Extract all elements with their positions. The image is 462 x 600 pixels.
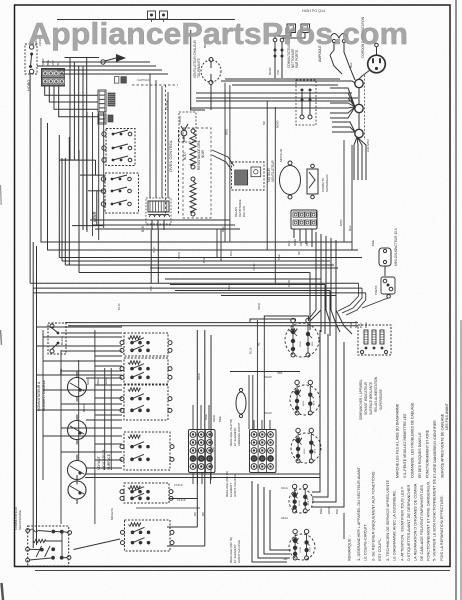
svg-text:BLC: BLC <box>349 61 353 68</box>
svg-text:B16: B16 <box>149 286 153 291</box>
svg-text:BGE: BGE <box>227 285 231 291</box>
svg-text:BGE: BGE <box>312 341 314 346</box>
svg-text:LE DIAGRAMME AVEC LA CUISINIER: LE DIAGRAMME AVEC LA CUISINIERE. <box>391 490 396 561</box>
svg-text:NOIR: NOIR <box>354 321 358 328</box>
svg-text:FOIS LA REPARATION EFFECTUEE.: FOIS LA REPARATION EFFECTUEE. <box>439 495 444 561</box>
svg-text:SUPERIEUR: SUPERIEUR <box>325 174 329 192</box>
svg-text:TOURNANTE: TOURNANTE <box>197 58 201 78</box>
svg-text:1- DEBRANCHER L APPAREIL DU SE: 1- DEBRANCHER L APPAREIL DU SECTEUR AVAN… <box>356 466 361 561</box>
svg-text:B16: B16 <box>141 226 145 232</box>
svg-text:NOIR: NOIR <box>303 400 305 406</box>
svg-text:PAR PORTE: PAR PORTE <box>295 50 299 68</box>
svg-text:BGE: BGE <box>218 416 222 422</box>
svg-text:MINI-DISJONCTEUR 15 A: MINI-DISJONCTEUR 15 A <box>394 227 398 266</box>
svg-text:NOIR: NOIR <box>327 507 331 514</box>
svg-text:NOIR: NOIR <box>276 120 280 128</box>
svg-text:B10W: B10W <box>264 375 272 379</box>
svg-text:BGE: BGE <box>314 400 316 405</box>
svg-text:MOLETA: MOLETA <box>110 508 114 520</box>
svg-text:LA REPARATION D ORGANES DE COM: LA REPARATION D ORGANES DE COMMA <box>413 483 418 561</box>
svg-text:BL16: BL16 <box>249 347 253 354</box>
svg-text:AppliancePartsPros.com: AppliancePartsPros.com <box>28 16 408 51</box>
svg-text:MOTEUR: MOTEUR <box>279 148 283 162</box>
svg-text:MTR: MTR <box>339 219 343 226</box>
svg-text:022A: 022A <box>281 516 288 520</box>
svg-text:SECONDAIRE: SECONDAIRE <box>18 510 22 530</box>
svg-text:BGE: BGE <box>202 257 206 263</box>
svg-text:VOYANT INDICATEUR: VOYANT INDICATEUR <box>364 381 368 415</box>
svg-text:BLC: BLC <box>221 225 225 232</box>
svg-text:NOIR: NOIR <box>212 415 216 422</box>
svg-text:BLC VID: BLC VID <box>242 206 246 217</box>
svg-text:NOIR: NOIR <box>304 448 306 454</box>
svg-text:F1316: F1316 <box>174 483 183 487</box>
svg-text:SURFACE: SURFACE <box>107 453 111 470</box>
svg-text:2- SE REFERER UNIQUEMENT AUX F: 2- SE REFERER UNIQUEMENT AUX FONCTIONS <box>370 471 375 561</box>
svg-text:B10W: B10W <box>264 411 272 415</box>
svg-text:D ETIQUETTES AVANT DE DEBRANCH: D ETIQUETTES AVANT DE DEBRANCHER <box>406 484 411 561</box>
svg-text:BGE: BGE <box>319 508 323 514</box>
svg-text:SUPERIEURE: SUPERIEURE <box>379 389 383 410</box>
svg-text:3- TECHNICIEN DE SERVICE APRES: 3- TECHNICIEN DE SERVICE APRES-VENTE <box>385 479 390 561</box>
svg-text:B10N: B10N <box>82 404 86 412</box>
svg-text:BGE: BGE <box>225 129 229 135</box>
svg-text:HIGH PO Q14: HIGH PO Q14 <box>302 9 325 13</box>
svg-text:LES FILS AVANT: LES FILS AVANT <box>445 402 449 430</box>
svg-text:ANT: ANT <box>51 60 55 66</box>
svg-text:BL: BL <box>56 62 60 66</box>
svg-text:BGE: BGE <box>96 379 100 385</box>
svg-text:NOIR: NOIR <box>299 500 301 506</box>
svg-text:BGE: BGE <box>371 240 375 246</box>
svg-text:RELAIS ALIMENTATION: RELAIS ALIMENTATION <box>374 376 378 412</box>
svg-text:COMMANDE. LES PROBLEMES DE CAB: COMMANDE. LES PROBLEMES DE CABLAGE <box>411 402 415 478</box>
svg-text:BLK: BLK <box>335 509 339 514</box>
svg-text:REMARQUE :-: REMARQUE :- <box>347 534 352 561</box>
svg-text:NOIR: NOIR <box>257 303 261 310</box>
svg-text:NOIR: NOIR <box>252 264 256 271</box>
svg-text:NOIR: NOIR <box>268 67 272 75</box>
svg-text:NC: NC <box>297 251 301 255</box>
svg-text:ET ATRE DANGEREUX IDENTIFIER: ET ATRE DANGEREUX IDENTIFIER <box>433 420 437 478</box>
svg-text:ARRIERE DROIT: ARRIERE DROIT <box>237 422 241 446</box>
svg-text:DE CABLAGE PEUVENT EMPARKER DE: DE CABLAGE PEUVENT EMPARKER DES <box>419 485 424 561</box>
svg-text:BLC: BLC <box>287 241 291 246</box>
svg-text:BGE: BGE <box>309 546 311 551</box>
svg-text:ER DES RISQUES DANS LE: ER DES RISQUES DANS LE <box>418 432 422 478</box>
svg-text:BLC: BLC <box>229 251 233 256</box>
svg-text:BL16: BL16 <box>117 303 121 310</box>
svg-text:NOIR: NOIR <box>300 341 302 347</box>
svg-text:OVEN CONTROL: OVEN CONTROL <box>168 139 173 172</box>
svg-text:CAPTENO: CAPTENO <box>137 78 151 82</box>
svg-text:SURFACE BROLANTE: SURFACE BROLANTE <box>369 382 373 415</box>
svg-text:MARCHE LES FILS A L AIDE DU DI: MARCHE LES FILS A L AIDE DU DIAGRAMME <box>396 403 400 478</box>
svg-text:FOUR: FOUR <box>178 116 182 124</box>
svg-text:PRESS: PRESS <box>374 285 378 295</box>
svg-text:LE COUPE-CIRCUIT.: LE COUPE-CIRCUIT. <box>362 524 367 561</box>
svg-text:BLOT: BLOT <box>183 152 187 160</box>
svg-text:4- ATTENTION : IDENTIFIER TOUS: 4- ATTENTION : IDENTIFIER TOUS LES F <box>399 486 404 561</box>
svg-text:BLC: BLC <box>348 224 352 231</box>
svg-text:T1/T2E: T1/T2E <box>165 100 169 110</box>
svg-text:NOIR: NOIR <box>201 149 205 158</box>
svg-text:FONCTIONNEMENT ET ATRE DANGERE: FONCTIONNEMENT ET ATRE DANGEREUX. <box>426 481 431 561</box>
svg-text:BGE: BGE <box>46 60 50 66</box>
svg-text:011A: 011A <box>281 486 288 490</box>
svg-text:NOIR: NOIR <box>287 280 291 287</box>
svg-text:NOIR: NOIR <box>177 252 181 259</box>
svg-text:BGE: BGE <box>277 254 281 260</box>
svg-text:S IL-PENTE VEUILLEZ REMETTRE L: S IL-PENTE VEUILLEZ REMETTRE LES <box>403 413 407 478</box>
svg-text:VENTILATEUR: VENTILATEUR <box>271 160 275 182</box>
svg-text:FONCTIONNEMENT ET ATRE: FONCTIONNEMENT ET ATRE <box>426 429 430 478</box>
svg-text:SERVICE APRES-VENTE DE CABLAGE: SERVICE APRES-VENTE DE CABLAGE <box>441 413 445 478</box>
svg-text:BLC: BLC <box>152 247 156 252</box>
svg-text:A31 MTR: A31 MTR <box>366 138 370 152</box>
svg-text:BGE: BGE <box>315 448 317 453</box>
svg-text:AVANT GAUCHE: AVANT GAUCHE <box>237 540 241 563</box>
svg-text:BGE: BGE <box>308 500 310 505</box>
svg-text:EST COUPL.: EST COUPL. <box>377 538 382 561</box>
svg-text:COMMUTATEUR A: COMMUTATEUR A <box>37 381 41 411</box>
svg-text:BLC: BLC <box>305 241 309 246</box>
svg-text:NOIR: NOIR <box>300 546 302 552</box>
svg-text:VID: VID <box>276 69 280 75</box>
svg-text:5- VERIFIER LE BON FONCTIONNEM: 5- VERIFIER LE BON FONCTIONNEMENT DE <box>432 479 437 561</box>
svg-text:DEBRANCHER L APPAREIL: DEBRANCHER L APPAREIL <box>359 379 363 420</box>
